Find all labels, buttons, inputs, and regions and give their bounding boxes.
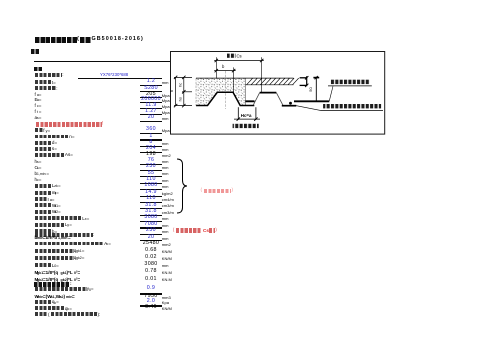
param row: value 3080 mm [0,263,496,269]
param row: value 76 mm [0,159,496,165]
param row: value 110 mm [0,177,496,183]
dimension: depth to resultant axis [315,77,317,102]
param row: value 204 mm [0,146,496,152]
concrete left boundary [195,78,197,106]
frame box [171,52,385,135]
red note: single-direction calc [0,122,496,128]
param row: value 14.9 kg/m2 [0,190,496,196]
section 2 canshu [0,66,496,72]
xiangmu underline (long row border) [34,61,170,62]
bottom dimension: min trough width [237,107,239,120]
param row: value 0.68 KN/M [0,248,496,254]
dimension: topping thickness [300,77,307,79]
param row: value 0.46 KN/M [0,306,496,312]
param row: value 1.27 Mpa [0,109,496,115]
label-only row: effective section within width b [0,232,496,238]
param row: value 206000 Mpa [0,97,496,103]
param row: value S280 [0,86,496,92]
param row: value 55 mm [0,171,496,177]
row: yaxinggangban xuanyong + YX76*230*688 [0,72,496,78]
svg-text:Hc=a: Hc=a [241,113,252,118]
param row: value 20 mm [0,115,496,121]
param row: value 20 mm [0,235,496,241]
param row: value 1080 mm [0,183,496,189]
param row: value 7930 mm3 [0,294,496,300]
param row: value 3080 mm [0,216,496,222]
param row: value 8 mm [0,140,496,146]
leader: rebar+deck combined resultant label [296,106,320,111]
title [0,37,496,44]
param row: value 7080 mm [0,222,496,228]
svg-text:50: 50 [308,87,313,92]
param row: value 1.2 mm [0,80,496,86]
top dimension: wave pitch Cs [214,60,264,62]
param row: value 198 mm2 [0,152,496,158]
concrete zone boundary [244,78,246,106]
svg-text:Cs: Cs [237,54,242,59]
param row: value 11.9 Mpa [0,103,496,109]
param row: value 25480 mm2 [0,241,496,247]
label-only row: bearing capacity note [0,312,496,318]
rib centerline [224,71,226,109]
param row: value 0.78 KN.M [0,270,496,276]
param row: value 2.0 Kpa [0,299,496,305]
dimension: flange opening b [214,70,236,72]
param row: value 0.01 KN.M [0,277,496,283]
param row: value 0.9 [0,286,496,292]
svg-text:hs: hs [177,97,182,101]
section 1 xiangmu [0,49,496,55]
caption: min single-trough width [233,124,259,128]
red note: (manufacturer data) [0,188,496,194]
param row: value 360 Mpa [0,128,496,134]
param row: value 110 cm4/m [0,197,496,203]
param row: value 205 Mpa [0,92,496,98]
param row: value 230 mm [0,229,496,235]
steel deck profile (composite zone) [196,92,254,105]
left height dimensions h, hc, hs [175,77,177,105]
slab top surface line [196,77,294,79]
concrete (stippled) [196,78,245,106]
red note: (program takes integral wave Cs) [0,228,496,234]
rebar point [289,102,292,105]
param row: value 1 [0,134,496,140]
leader: deck resultant point label [329,86,333,101]
diagram: composite deck cross-section [170,51,386,135]
hatched concrete strip [245,84,293,86]
svg-text:hc: hc [177,83,182,87]
param row: value 31.8 cm3/m [0,209,496,215]
curly brace grouping manufacturer rows [174,158,190,214]
param row: value 31.8 cm3/m [0,203,496,209]
svg-text:b: b [222,64,225,69]
right trough bottom flange [282,105,297,107]
deck resultant-force axis line [245,100,254,102]
param row: value 0.02 KN/M [0,255,496,261]
param row: value 230 mm [0,165,496,171]
section 3: construction stage check [0,282,496,288]
bare deck rib (middle) [260,92,277,94]
